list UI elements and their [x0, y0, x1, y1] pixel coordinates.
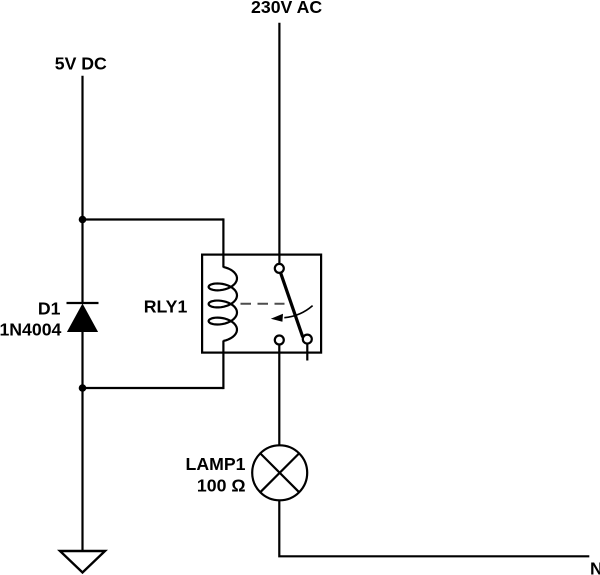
lamp LAMP1 cross	[260, 453, 299, 492]
svg-text:D1: D1	[38, 298, 61, 318]
diode D1 cathode bar	[67, 302, 99, 304]
wire 5V DC vertical to diode cathode	[81, 76, 83, 303]
relay RLY1 dashed link	[241, 303, 285, 305]
relay RLY1 coil	[209, 267, 237, 341]
svg-text:5V DC: 5V DC	[55, 53, 107, 73]
wire diode anode to ground	[81, 332, 83, 551]
diode D1 triangle	[67, 304, 98, 333]
lamp LAMP1 circle	[252, 445, 307, 500]
relay RLY1 switch blade	[281, 273, 303, 337]
junction dot node B (diode/coil bottom)	[79, 384, 87, 392]
wire coil bottom vertical	[222, 341, 224, 390]
svg-text:LAMP1: LAMP1	[186, 454, 246, 474]
relay RLY1 arrow arc	[284, 306, 312, 318]
wire lamp to N	[279, 500, 589, 556]
relay RLY1 pin circle common (top)	[275, 264, 284, 273]
svg-text:1N4004: 1N4004	[0, 319, 62, 339]
relay RLY1 box	[202, 255, 321, 353]
wire coil top vertical	[222, 218, 224, 267]
junction dot node A (5V/coil top)	[79, 216, 87, 224]
wire NC stub	[306, 344, 308, 361]
wire relay to lamp	[278, 345, 280, 446]
wire 230V AC vertical	[278, 23, 280, 264]
wire node B horizontal to coil bottom	[83, 387, 224, 389]
relay RLY1 pin circle NO (bottom left)	[275, 336, 284, 345]
svg-text:RLY1: RLY1	[144, 296, 188, 316]
svg-text:100 Ω: 100 Ω	[197, 475, 246, 495]
relay RLY1 arrow head	[271, 314, 283, 322]
ground	[60, 551, 105, 573]
svg-text:N: N	[590, 559, 600, 575]
wire node A horizontal to coil	[83, 218, 224, 220]
svg-text:230V AC: 230V AC	[251, 0, 322, 17]
relay RLY1 pin circle NC (bottom right)	[303, 335, 312, 344]
